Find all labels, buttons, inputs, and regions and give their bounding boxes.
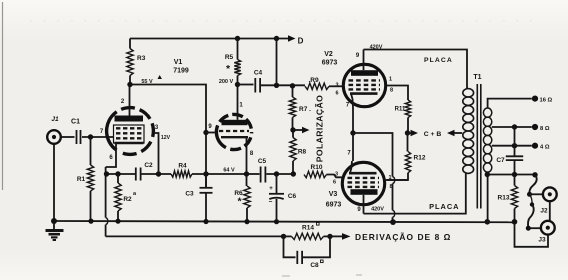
capacitor C5 [260,167,262,183]
svg-text:200 V: 200 V [219,79,234,85]
svg-text:8: 8 [389,184,392,190]
V1 triode grid structure [114,125,145,143]
jack J2 [529,175,536,195]
svg-text:C6: C6 [288,193,297,200]
svg-text:1: 1 [389,77,392,83]
svg-text:4 Ω: 4 Ω [540,145,550,151]
wire V1 plate pin 2 up [129,85,131,116]
svg-text:R4: R4 [178,163,187,170]
svg-text:−: − [269,199,273,206]
transformer T1 primary [463,89,474,174]
ground rail [54,221,515,222]
resistor R6 [246,174,248,186]
polarization arrow [293,129,303,131]
svg-text:R12: R12 [414,155,426,162]
svg-text:6: 6 [335,91,338,97]
svg-text:12V: 12V [161,135,171,141]
V3 plate pin 9 [363,195,365,214]
svg-text:C2: C2 [144,162,153,169]
V1 triode cathode pin 6 [115,142,144,144]
svg-text:6: 6 [333,180,336,186]
wire V1 pin 3 to node [154,133,159,174]
svg-text:420V: 420V [370,45,383,51]
tube V1 pentode section [216,114,251,149]
svg-text:C5: C5 [258,158,267,165]
wire J1 to ground rail [53,144,55,221]
svg-text:J3: J3 [538,237,546,244]
pentode grid pin 9 [206,132,215,134]
wire top supply rail to D [130,38,289,40]
resistor R14 [284,235,292,237]
resistor R11 [405,100,410,118]
wire C1 to V1 pin 7 [82,136,114,138]
svg-text:8: 8 [390,88,393,94]
svg-text:6973: 6973 [322,60,338,67]
capacitor C1 [76,130,78,144]
svg-text:V3: V3 [329,191,338,198]
resistor R7 [292,86,294,97]
svg-text:.R9: .R9 [308,77,319,84]
node C+B [408,132,412,134]
pentode cathode pin 8 [221,136,248,138]
jack J1 [47,130,61,144]
svg-text:3: 3 [335,172,338,178]
tube V3 6973 [342,162,384,204]
tube V1 triode section [107,108,154,155]
secondary taps [488,99,532,108]
wire 420V plate to T1 [364,50,468,89]
wire rail to jacks [515,222,549,247]
svg-text:V2: V2 [324,51,333,58]
capacitor C2 [135,168,137,181]
resistor R10 [304,171,327,177]
svg-text:3: 3 [335,83,338,89]
resistor R1 [90,137,92,165]
capacitor C6 [276,174,278,193]
svg-text:R3: R3 [137,55,146,62]
svg-text:R11: R11 [395,107,406,113]
node cathode V1a / feedback [105,167,107,218]
capacitor C3 [205,174,207,187]
svg-text:R13: R13 [498,195,510,202]
resistor R3 [129,39,131,49]
svg-text:55 V: 55 V [141,79,153,85]
V2 plate pin 9 [363,50,365,71]
svg-text:R7 .: R7 . [299,106,311,113]
resistor R8 [292,130,294,138]
svg-text:J2: J2 [540,208,548,215]
arrow derivacao [330,235,343,237]
wire pentode plate pin 1 [237,85,239,120]
wire secondary bottom to switch feed [487,174,535,176]
wire top rail drop [276,39,278,86]
svg-text:D: D [298,37,304,46]
svg-text:64 V: 64 V [223,168,235,174]
jack J3 [549,201,551,220]
svg-text:J1: J1 [51,116,59,123]
svg-text:PLACA: PLACA [424,57,453,64]
wire J1 to C1 [61,136,75,138]
V3 screen pins 1,8 [386,179,408,181]
svg-text:R1: R1 [77,176,86,183]
svg-text:6973: 6973 [326,202,342,209]
capacitor C4 [238,84,254,86]
resistor R2 [117,174,119,183]
page edge artifact [2,2,4,190]
svg-text:8 Ω: 8 Ω [540,126,550,132]
svg-text:T1: T1 [473,74,481,81]
capacitor C7 [514,127,516,156]
svg-text:C3: C3 [185,191,194,198]
V2 screen pins 1,8 [386,86,408,101]
svg-text:C + B: C + B [424,131,442,138]
svg-text:C1: C1 [71,119,80,126]
svg-text:R5: R5 [225,54,234,61]
svg-text:R14: R14 [302,225,314,232]
svg-text:R8: R8 [298,149,307,156]
wire placa bottom to T1 [364,174,466,214]
svg-text:V1: V1 [174,59,183,66]
resistor R13 [514,175,516,186]
svg-text:7199: 7199 [173,68,189,75]
resistor R5 [237,39,239,60]
resistor R12 [407,133,409,152]
feedback rail [106,235,284,237]
svg-text:PLACA: PLACA [429,202,459,211]
wire cathodes V2 V3 to ground [350,130,355,135]
T1 secondary [483,108,491,172]
svg-text:16 Ω: 16 Ω [540,98,553,104]
svg-text:DERIVAÇÃO DE 8 Ω: DERIVAÇÃO DE 8 Ω [355,232,451,242]
svg-text:C8: C8 [310,262,319,269]
V2 cathode pin 7 [352,108,354,134]
svg-text:+: + [269,185,273,192]
resistor R4 [171,171,192,177]
svg-text:R2: R2 [123,196,132,203]
ground [53,221,55,230]
svg-text:C7: C7 [496,157,505,164]
wire V1 plate node to pentode grid [130,85,206,188]
capacitor C8 [284,236,296,257]
T1 core [476,84,478,209]
svg-text:POLARIZAÇÃO: POLARIZAÇÃO [315,95,325,162]
resistor R9 [305,83,329,89]
svg-text:R10: R10 [311,164,323,171]
svg-text:C4: C4 [254,70,263,77]
tube V2 6973 [343,64,385,106]
svg-text:1: 1 [388,175,391,181]
svg-text:420V: 420V [371,207,384,213]
